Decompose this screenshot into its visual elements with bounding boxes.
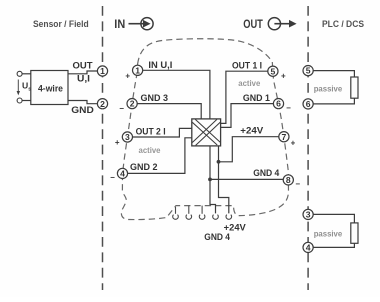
junction dot: +24V node xyxy=(217,160,221,164)
bus contact 5 (+24V) xyxy=(226,215,232,220)
wire: load resistor 1 to plc terminal 6 xyxy=(313,98,354,104)
svg-text:IN U,I: IN U,I xyxy=(148,60,172,70)
device dashed outline xyxy=(121,39,288,220)
device terminal 3 xyxy=(115,132,133,147)
wire: +24V from bus junction to device terminal 7 xyxy=(219,137,279,162)
plc/dcs boundary dashed line xyxy=(307,6,309,290)
wire: plc terminal 5 to load resistor 1 xyxy=(313,71,354,77)
wire: GND 2 from device terminal 4 to isolator xyxy=(128,138,192,174)
svg-text:active: active xyxy=(238,79,260,88)
bus contact 1 xyxy=(173,207,179,219)
wire: 4-wire box GND to field terminal 2 xyxy=(68,101,98,104)
wire: GND 3 from device terminal 2 to isolator xyxy=(137,104,201,119)
isolator barrier symbol (square with double X) xyxy=(192,119,221,146)
svg-text:passive: passive xyxy=(314,83,343,93)
svg-text:4: 4 xyxy=(120,169,125,179)
load resistor 1 xyxy=(351,77,358,98)
svg-text:+: + xyxy=(115,138,120,147)
svg-text:GND 1: GND 1 xyxy=(243,93,270,103)
svg-text:3: 3 xyxy=(125,132,130,142)
svg-text:GND 4: GND 4 xyxy=(253,168,279,178)
svg-text:2: 2 xyxy=(130,99,135,109)
svg-text:GND 4: GND 4 xyxy=(204,232,230,242)
svg-text:6: 6 xyxy=(276,99,281,109)
svg-text:4-wire: 4-wire xyxy=(38,83,63,93)
svg-text:1: 1 xyxy=(135,65,140,75)
wire: 4-wire box OUT to field terminal 1 xyxy=(68,71,98,74)
svg-text:U,I: U,I xyxy=(77,74,90,84)
svg-text:OUT: OUT xyxy=(73,61,94,71)
wire: isolator bottom to +24V bus contact xyxy=(219,146,229,213)
svg-text:−: − xyxy=(295,179,300,188)
plc terminal 5 xyxy=(303,66,313,76)
wire: source to 4-wire box bottom xyxy=(22,100,31,102)
transducer box 4-wire xyxy=(31,71,68,105)
wire: IN U,I from device terminal 1 to isolator xyxy=(143,70,210,119)
wire: load resistor 2 to plc terminal 4 xyxy=(313,243,354,247)
svg-text:+: + xyxy=(125,72,130,81)
svg-text:active: active xyxy=(139,146,161,155)
IN arrow symbol (arrow into circle) xyxy=(129,18,154,30)
field terminal 2 xyxy=(97,99,107,109)
plc terminal 4 xyxy=(303,242,313,252)
svg-text:5: 5 xyxy=(306,66,311,76)
svg-text:PLC / DCS: PLC / DCS xyxy=(322,19,364,29)
device terminal 7 xyxy=(279,132,296,148)
bus contact 3 xyxy=(199,206,205,220)
wire: plc terminal 3 to load resistor 2 xyxy=(313,214,354,223)
svg-text:2: 2 xyxy=(100,99,105,109)
svg-text:7: 7 xyxy=(282,132,287,142)
svg-text:OUT: OUT xyxy=(243,17,263,31)
svg-text:U: U xyxy=(22,81,28,91)
device terminal 4 xyxy=(110,168,128,182)
svg-text:+: + xyxy=(291,138,296,147)
load resistor 2 xyxy=(351,223,358,243)
svg-text:6: 6 xyxy=(306,99,311,109)
svg-text:+: + xyxy=(281,72,286,81)
svg-text:OUT 1 I: OUT 1 I xyxy=(232,61,262,71)
svg-text:1: 1 xyxy=(100,66,105,76)
bus contact 4 (GND 4) xyxy=(213,215,219,220)
Us label with down arrow xyxy=(17,80,32,96)
plc terminal 3 xyxy=(303,209,313,219)
source terminal top (open circle) xyxy=(17,71,22,76)
svg-text:GND: GND xyxy=(71,105,94,115)
svg-text:GND 2: GND 2 xyxy=(130,162,158,172)
svg-text:5: 5 xyxy=(271,66,276,76)
svg-text:IN: IN xyxy=(114,17,125,31)
svg-text:3: 3 xyxy=(306,210,311,220)
svg-text:+24V: +24V xyxy=(240,126,263,136)
svg-text:−: − xyxy=(286,103,291,112)
wire: source to 4-wire box top xyxy=(22,73,31,75)
device terminal 6 xyxy=(273,99,291,113)
svg-text:Sensor / Field: Sensor / Field xyxy=(33,19,89,29)
wire: OUT 2 I from device terminal 3 to isolator xyxy=(133,128,192,137)
OUT arrow symbol (arrow out of circle) xyxy=(268,18,296,30)
svg-text:4: 4 xyxy=(306,243,311,253)
wire: isolator bottom to GND bus contact xyxy=(210,146,216,213)
device terminal 1 xyxy=(125,65,142,80)
device terminal 2 xyxy=(119,99,137,114)
device terminal 5 xyxy=(268,66,286,81)
sensor/field boundary dashed line xyxy=(102,6,104,290)
source terminal bottom (open circle) xyxy=(17,98,22,103)
wire: GND 1 from isolator to device terminal 6 xyxy=(221,104,274,128)
wire: GND 4 from bus junction to device terminal 8 xyxy=(210,178,283,180)
bus contact 2 xyxy=(186,206,192,220)
svg-text:OUT 2 I: OUT 2 I xyxy=(136,126,166,136)
junction dot: GND 4 node xyxy=(208,178,212,182)
device terminal 8 xyxy=(283,175,300,189)
svg-text:passive: passive xyxy=(314,228,343,238)
svg-text:GND 3: GND 3 xyxy=(141,93,169,103)
svg-text:−: − xyxy=(110,173,115,182)
field terminal 1 xyxy=(97,66,107,76)
svg-text:−: − xyxy=(119,104,124,113)
svg-text:8: 8 xyxy=(286,175,291,185)
plc terminal 6 xyxy=(303,99,313,109)
wire: OUT 1 I from isolator to device terminal 5 xyxy=(221,71,268,123)
